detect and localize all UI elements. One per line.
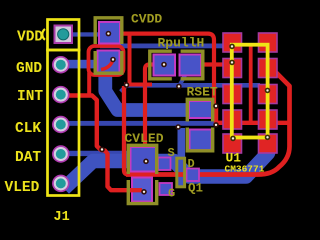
op-amp U1 pad row1 left — [223, 33, 242, 52]
op-amp U1 pad row1 right — [259, 33, 278, 52]
via U1 row2 left — [229, 60, 235, 66]
svg-text:VDD: VDD — [17, 30, 43, 46]
resistor RSET courtyard — [187, 99, 212, 151]
svg-text:J1: J1 — [54, 210, 70, 225]
connector J1 pin 5 pad — [53, 146, 69, 162]
op-amp U1 pad row2 right — [259, 59, 278, 78]
capacitor CVLED pad 2 — [132, 178, 152, 202]
wire node net via2 to U1 — [124, 83, 260, 88]
connector J1 body box — [48, 50, 80, 196]
connector J1 pin 4 pad — [53, 117, 69, 133]
connector J1 pin 3 pad — [53, 87, 69, 103]
op-amp U1 pad row5 right — [259, 134, 278, 153]
svg-text:VLED: VLED — [5, 180, 40, 196]
transistor Q1 pad S — [158, 158, 171, 171]
via CVLED bottom — [141, 189, 147, 195]
op-amp U1 pad row2 left — [223, 59, 242, 78]
via node 3 — [176, 84, 182, 90]
wire long red LED return — [126, 73, 290, 175]
via node 2 — [124, 82, 130, 88]
via RpullH left — [161, 62, 167, 68]
via U1 row1 left — [229, 44, 235, 50]
svg-text:Q1: Q1 — [188, 182, 203, 196]
op-amp U1 pad row3 right — [259, 85, 278, 104]
wire via5 to via6 — [214, 106, 218, 125]
connector J1 pin 6 pad — [53, 176, 69, 192]
wire RpullH to U1 row2 — [202, 62, 224, 66]
wire CLK pin4 — [67, 121, 216, 126]
wire DAT pin5 to Q1 S — [67, 153, 162, 164]
connector J1 pin 1 pad — [55, 26, 73, 44]
op-amp U1 pad row4 left — [223, 110, 242, 129]
wire CVLED feed from RpullH via — [145, 65, 164, 160]
op-amp U1 pad row4 right — [259, 110, 278, 129]
wire U1 center vertical — [249, 44, 253, 123]
svg-text:RpullH: RpullH — [158, 36, 205, 51]
wire yellow U1 loop — [232, 45, 268, 138]
wire C1 via down — [124, 86, 129, 175]
svg-text:G: G — [168, 187, 175, 201]
wire red loop around C1 bottom pad — [89, 46, 124, 75]
wire Q1 drain vertical — [178, 128, 186, 188]
svg-text:D: D — [188, 157, 195, 171]
svg-text:CVDD: CVDD — [131, 12, 162, 27]
via CVLED top — [143, 159, 149, 165]
capacitor C1 pad 2 — [98, 51, 120, 75]
wire stub oval to INT line — [87, 73, 91, 96]
capacitor CVLED pad 1 — [131, 147, 157, 172]
wire VDD pin1 to C1 — [70, 32, 101, 36]
connector J1 pin1 box — [48, 20, 80, 51]
via node 4 — [175, 124, 181, 130]
transistor Q1 outline — [177, 158, 185, 187]
svg-text:RSET: RSET — [187, 85, 218, 100]
via node 7 — [99, 147, 105, 153]
svg-text:DAT: DAT — [15, 150, 41, 166]
resistor RpullH pad 1 — [154, 55, 176, 76]
wire CVDD rail to U1 — [100, 44, 230, 49]
wire RpullH pad to via3 — [179, 75, 186, 87]
via C1 top — [106, 31, 112, 37]
op-amp U1 pad row3 left — [223, 85, 242, 104]
wire INT pin3 long down — [67, 96, 142, 191]
wire red A CVDD via to via5 — [109, 34, 215, 106]
capacitor CVLED courtyard — [128, 145, 156, 203]
pin-1 marker arc — [42, 29, 45, 40]
wire via2 stub — [121, 86, 127, 92]
via U1 row3 right — [265, 88, 271, 94]
op-amp U1 pad row5 left — [223, 134, 242, 153]
wire C1 wide power bend — [105, 60, 196, 110]
via U1 row5 right — [265, 135, 271, 141]
svg-text:S: S — [168, 146, 175, 160]
via node 6 — [213, 122, 219, 128]
svg-text:CVLED: CVLED — [125, 131, 164, 146]
wire C1 via arc — [101, 60, 113, 70]
via U1 row5 left — [230, 136, 236, 142]
svg-text:INT: INT — [17, 89, 43, 105]
svg-text:GND: GND — [16, 61, 42, 77]
wire C1 bottom via to red A — [128, 34, 132, 85]
wire VLED wide band — [64, 144, 268, 189]
svg-text:CLK: CLK — [15, 121, 41, 137]
connector J1 pin 2 pad — [53, 57, 69, 73]
resistor RSET pad 1 — [189, 101, 212, 118]
resistor RpullH pad 2 — [180, 55, 202, 76]
capacitor C1 courtyard — [95, 18, 122, 73]
wire via6 to right edge — [216, 121, 290, 125]
svg-text:CM36771: CM36771 — [225, 164, 265, 175]
resistor RSET pad 2 — [190, 130, 212, 151]
wire INT into CVLED via — [128, 188, 142, 192]
resistor RpullH courtyard — [150, 51, 203, 79]
capacitor C1 pad 1 — [99, 22, 120, 44]
via C1 bottom — [110, 57, 116, 63]
wire GND pin2 wide — [68, 60, 99, 69]
transistor Q1 pad G — [160, 183, 173, 195]
via node 5 — [213, 103, 219, 109]
transistor Q1 pad D — [187, 169, 200, 182]
